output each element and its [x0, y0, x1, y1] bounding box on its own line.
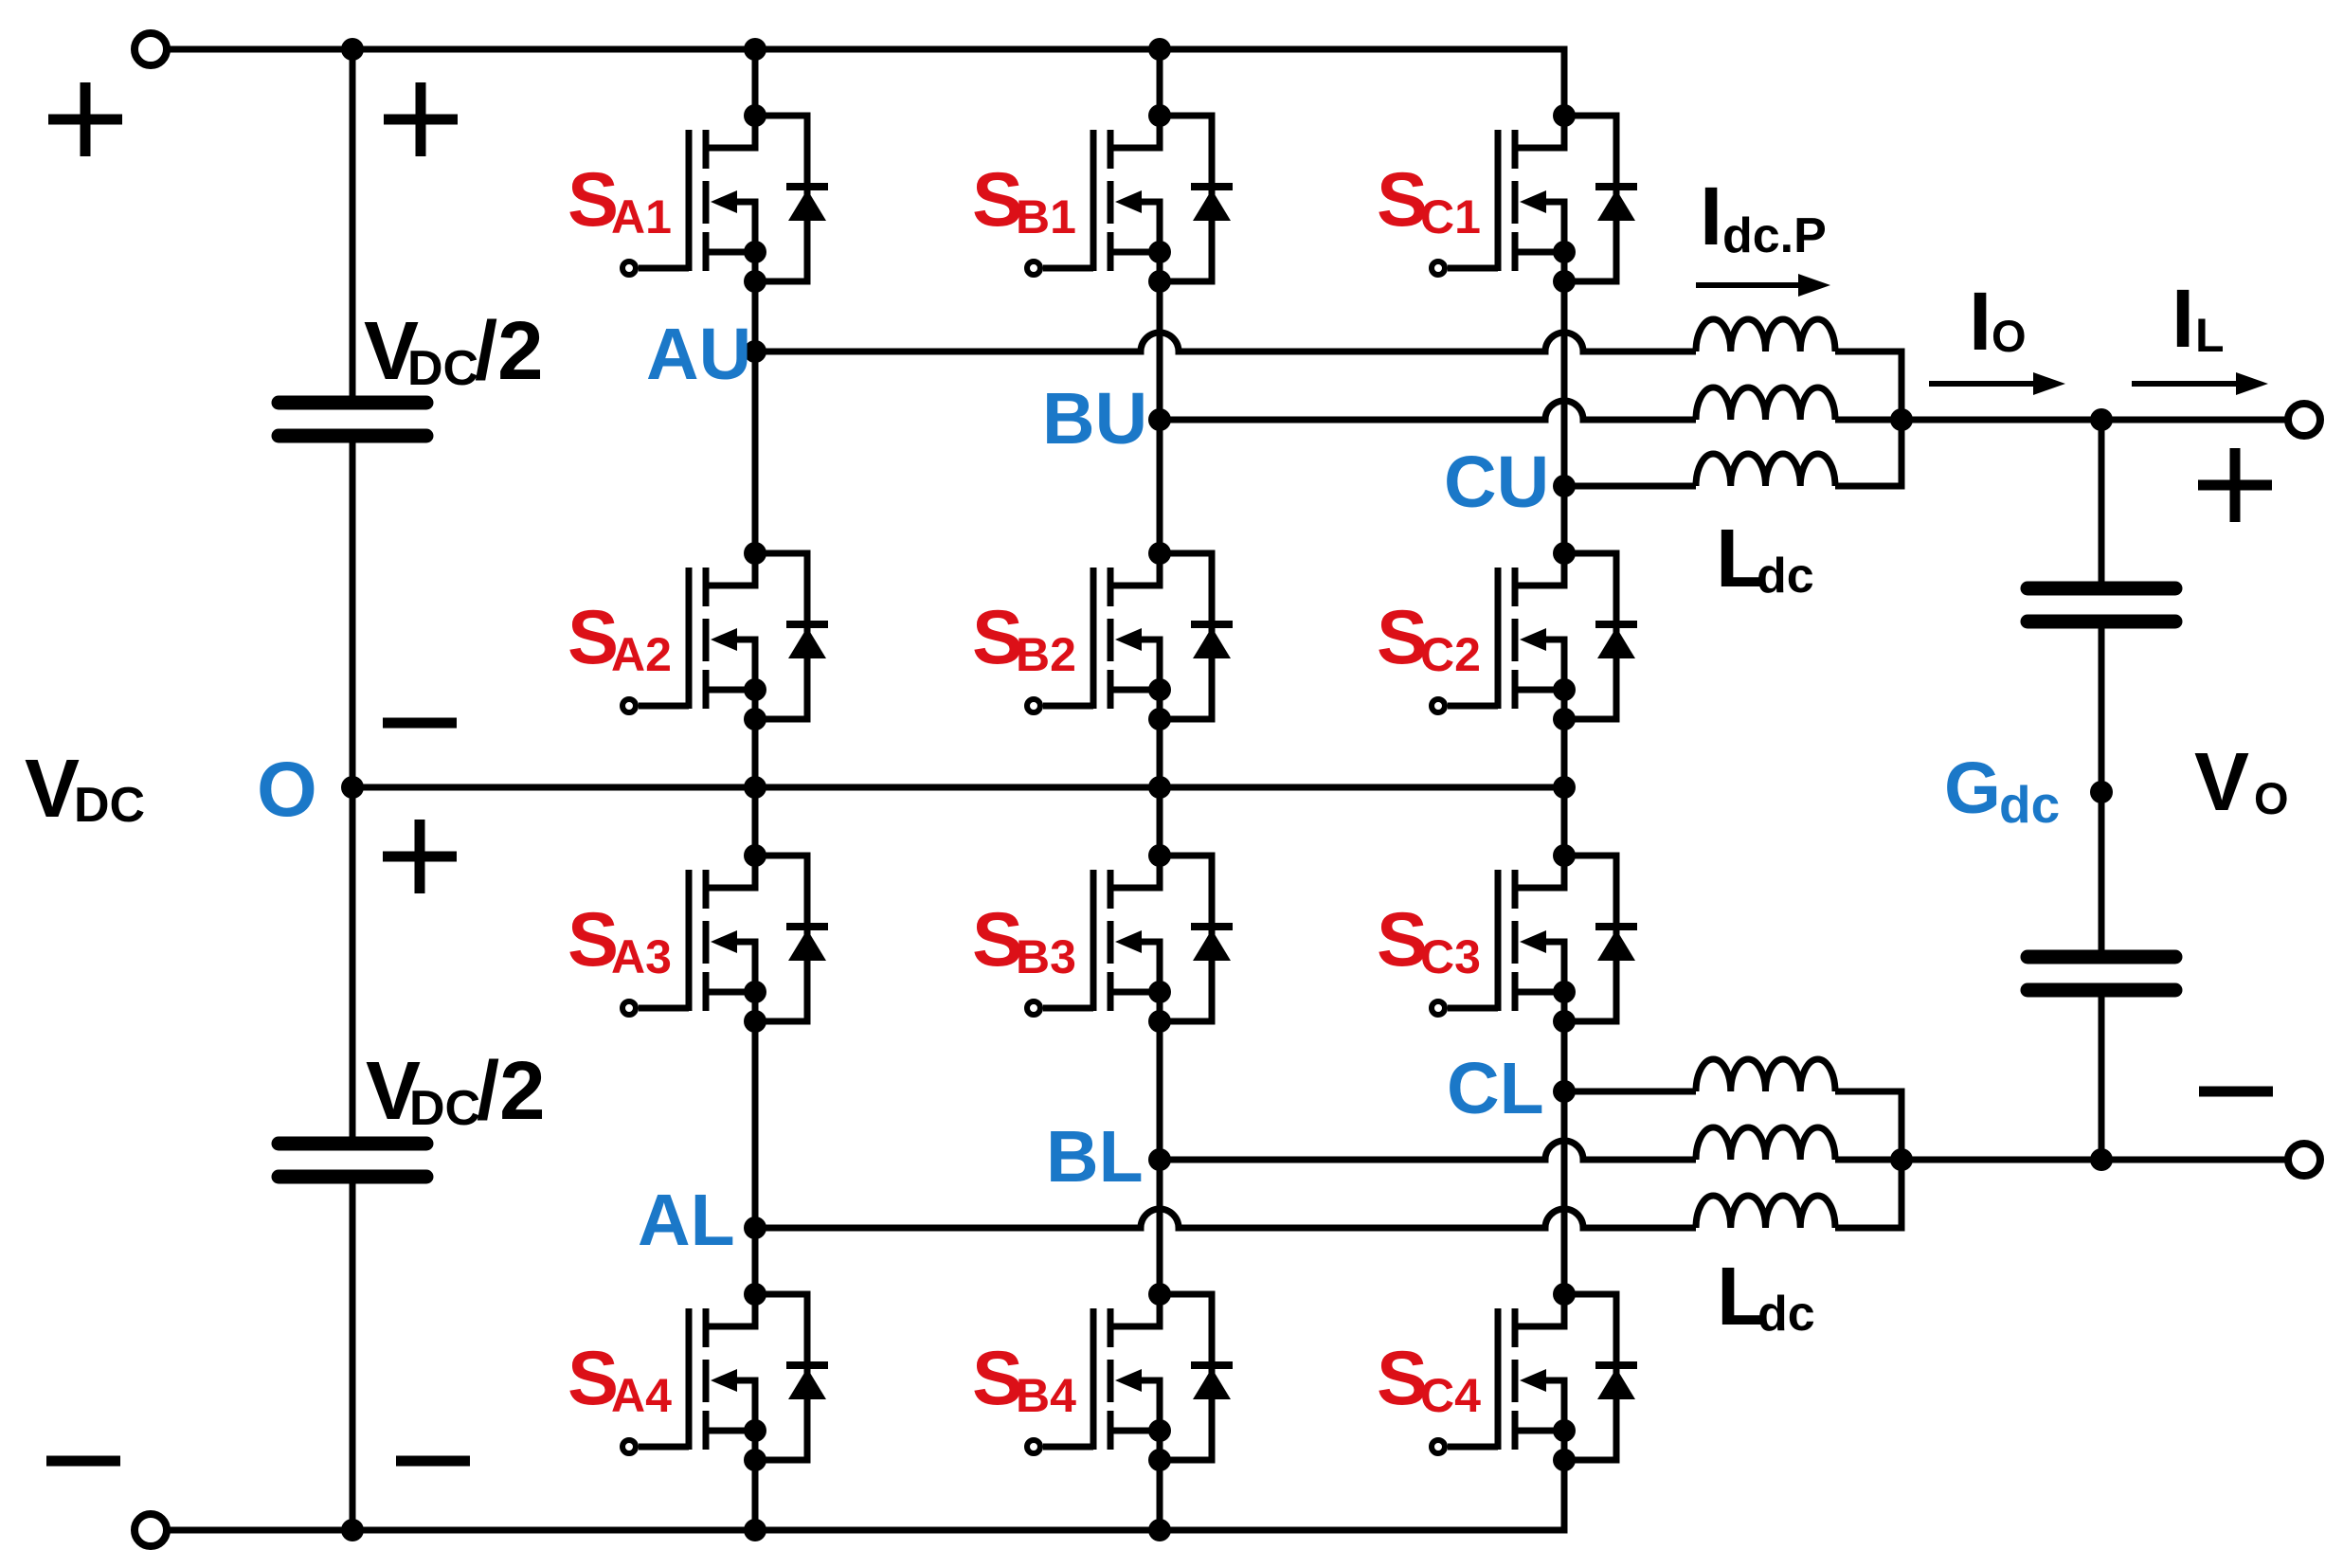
wire leg A seg3: [752, 719, 759, 856]
svg-text:CL: CL: [1447, 1048, 1544, 1129]
svg-text:BU: BU: [1042, 378, 1147, 460]
inductor Ldc phase C lower: [1696, 1059, 1835, 1091]
plus output Vo: [2198, 480, 2272, 491]
terminal DC+ input: [135, 33, 167, 65]
svg-text:O: O: [1992, 311, 2027, 361]
svg-text:dc: dc: [1999, 775, 2060, 834]
wire leg C seg3: [1561, 719, 1568, 856]
arrow Idc.P: [1696, 282, 1804, 288]
wire DC bus upper: [350, 49, 356, 403]
svg-text:dc: dc: [1757, 549, 1814, 604]
node O rail leg C junction: [1553, 776, 1576, 799]
wire leg B top: [1157, 49, 1163, 116]
node lower merge junction: [1890, 1148, 1913, 1171]
wire output cap upper lead: [2099, 420, 2105, 588]
svg-text:B1: B1: [1016, 190, 1076, 243]
wire DC bus between cap1 and O: [350, 436, 356, 787]
node junction bottom bus: [341, 1519, 364, 1541]
node lower output cap junction: [2090, 1148, 2113, 1171]
wire CL to coil: [1564, 1089, 1696, 1095]
minus output Vo: [2199, 1087, 2273, 1097]
plus cap1: [384, 115, 458, 125]
svg-text:B2: B2: [1016, 628, 1076, 681]
wire leg B seg2: [1157, 281, 1163, 553]
node O junction: [341, 776, 364, 799]
capacitor Vdc/2 upper: [279, 403, 426, 436]
svg-text:DC: DC: [74, 778, 145, 833]
wire leg C seg2: [1561, 281, 1568, 553]
wire DC bus below cap2: [350, 1177, 356, 1530]
wire CU coil to merge: [1835, 420, 1901, 486]
node upper output cap junction: [2090, 408, 2113, 431]
node junction top leg B: [1148, 38, 1171, 61]
node BL junction: [1148, 1148, 1171, 1171]
transistor SC4 (MOSFET with body diode): [1432, 1283, 1637, 1471]
wire DC bus lower: [350, 787, 356, 1144]
capacitor Vdc/2 lower: [279, 1144, 426, 1177]
wire leg A seg4: [752, 1021, 759, 1294]
svg-text:C3: C3: [1420, 930, 1481, 983]
wire lower output: [1901, 1157, 2290, 1163]
svg-text:A3: A3: [611, 930, 672, 983]
wire CL coil to merge: [1835, 1091, 1901, 1160]
wire AU to coil (hops legs B,C): [755, 333, 1696, 351]
node O rail leg B junction: [1148, 776, 1171, 799]
svg-text:B4: B4: [1016, 1369, 1076, 1422]
wire leg C seg4: [1561, 1021, 1568, 1294]
svg-text:I: I: [2172, 273, 2194, 365]
svg-text:/2: /2: [475, 305, 544, 397]
svg-text:C4: C4: [1420, 1369, 1481, 1422]
svg-text:C2: C2: [1420, 628, 1481, 681]
minus Vdc input: [46, 1456, 120, 1467]
transistor SC1 (MOSFET with body diode): [1432, 104, 1637, 293]
svg-text:O: O: [257, 747, 317, 833]
transistor SC3 (MOSFET with body diode): [1432, 844, 1637, 1033]
svg-text:O: O: [2254, 773, 2289, 823]
transistor SA3 (MOSFET with body diode): [622, 844, 828, 1033]
wire between output caps upper: [2099, 622, 2105, 957]
wire leg B seg3: [1157, 719, 1163, 856]
svg-text:DC: DC: [407, 341, 478, 396]
svg-text:/2: /2: [477, 1045, 546, 1137]
wire AU coil to merge: [1835, 351, 1901, 420]
wire mid-point O rail: [352, 784, 1564, 791]
node CL junction: [1553, 1080, 1576, 1103]
transistor SB4 (MOSFET with body diode): [1027, 1283, 1233, 1471]
terminal output -: [2288, 1144, 2320, 1176]
wire BL to coil (hops leg C): [1160, 1141, 1696, 1160]
node Gdc junction: [2090, 781, 2113, 803]
node BU junction: [1148, 408, 1171, 431]
inductor Ldc phase B lower: [1696, 1127, 1835, 1160]
arrow IL: [2132, 381, 2242, 387]
wire CU to coil: [1564, 483, 1696, 490]
wire leg A seg2: [752, 281, 759, 553]
node upper merge junction: [1890, 408, 1913, 431]
wire BL coil to merge: [1835, 1157, 1901, 1163]
arrow Io: [1929, 381, 2039, 387]
node junction top leg A: [744, 38, 766, 61]
inductor Ldc phase A lower: [1696, 1196, 1835, 1228]
wire leg B seg4: [1157, 1021, 1163, 1294]
wire leg A top: [752, 49, 759, 116]
inductor Ldc phase B upper: [1696, 387, 1835, 420]
wire upper output: [1901, 417, 2290, 424]
capacitor Gdc upper: [2028, 588, 2175, 622]
minus cap2: [396, 1456, 470, 1467]
svg-text:V: V: [25, 743, 80, 835]
svg-text:A2: A2: [611, 628, 672, 681]
svg-text:I: I: [1969, 276, 1992, 368]
transistor SA4 (MOSFET with body diode): [622, 1283, 828, 1471]
node CU junction: [1553, 475, 1576, 497]
svg-text:C1: C1: [1420, 190, 1481, 243]
wire leg A bottom: [752, 1460, 759, 1530]
transistor SA1 (MOSFET with body diode): [622, 104, 828, 293]
wire top DC+ rail: [167, 49, 1564, 116]
terminal output +: [2288, 404, 2320, 436]
node AU junction: [744, 340, 766, 363]
svg-text:DC: DC: [409, 1081, 480, 1136]
svg-text:L: L: [2195, 309, 2225, 362]
inductor Ldc phase A upper: [1696, 319, 1835, 351]
svg-text:AL: AL: [638, 1180, 735, 1261]
plus Vdc input: [48, 115, 122, 125]
transistor SB3 (MOSFET with body diode): [1027, 844, 1233, 1033]
transistor SA2 (MOSFET with body diode): [622, 542, 828, 730]
wire output cap lower lead: [2099, 990, 2105, 1160]
wire BU coil to merge: [1835, 417, 1901, 424]
svg-text:CU: CU: [1444, 442, 1549, 523]
node junction bottom leg B: [1148, 1519, 1171, 1541]
node junction bottom leg A: [744, 1519, 766, 1541]
wire BU to coil (hops leg C): [1160, 401, 1696, 420]
svg-text:AU: AU: [646, 314, 751, 395]
node O rail leg A junction: [744, 776, 766, 799]
svg-text:dc.P: dc.P: [1722, 208, 1827, 263]
terminal DC- input: [135, 1514, 167, 1546]
svg-text:B3: B3: [1016, 930, 1076, 983]
wire AL to coil (hops legs B,C): [755, 1209, 1696, 1228]
plus cap2: [383, 852, 457, 862]
node AL junction: [744, 1217, 766, 1239]
svg-text:A4: A4: [611, 1369, 672, 1422]
inductor Ldc phase C upper: [1696, 454, 1835, 486]
svg-text:dc: dc: [1757, 1287, 1815, 1342]
capacitor Gdc lower: [2028, 957, 2175, 990]
svg-text:G: G: [1944, 748, 2001, 829]
node junction top bus: [341, 38, 364, 61]
svg-text:V: V: [2194, 736, 2249, 828]
wire bottom DC- rail: [167, 1460, 1564, 1530]
minus cap1: [383, 718, 457, 729]
transistor SC2 (MOSFET with body diode): [1432, 542, 1637, 730]
svg-text:A1: A1: [611, 190, 672, 243]
wire leg B bottom: [1157, 1460, 1163, 1530]
svg-text:I: I: [1700, 171, 1722, 262]
svg-text:BL: BL: [1046, 1116, 1144, 1198]
wire AL coil to merge: [1835, 1160, 1901, 1228]
transistor SB1 (MOSFET with body diode): [1027, 104, 1233, 293]
transistor SB2 (MOSFET with body diode): [1027, 542, 1233, 730]
